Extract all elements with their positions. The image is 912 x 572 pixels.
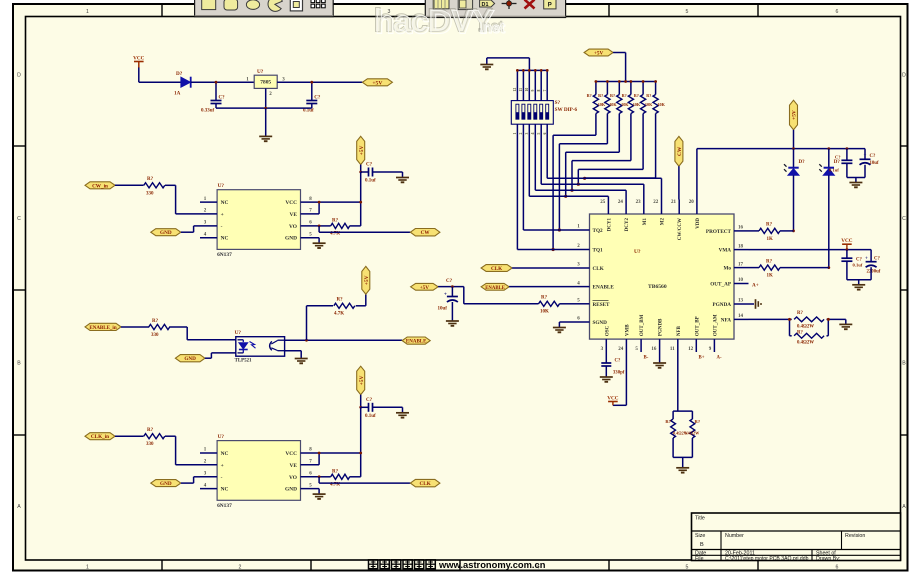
svg-text:CLK: CLK — [491, 266, 502, 272]
svg-text:VMB: VMB — [625, 324, 630, 336]
svg-text:1K: 1K — [767, 274, 774, 279]
svg-text:M1: M1 — [643, 218, 648, 226]
svg-text:NFA: NFA — [721, 317, 732, 323]
svg-text:9: 9 — [531, 90, 535, 92]
svg-text:6: 6 — [543, 133, 547, 135]
svg-text:0.1uf: 0.1uf — [303, 109, 314, 114]
svg-text:10K: 10K — [540, 310, 549, 315]
svg-text:R?: R? — [337, 298, 344, 303]
svg-text:7: 7 — [543, 90, 547, 92]
svg-text:hacDVY: hacDVY — [374, 3, 494, 40]
svg-text:File: File — [695, 556, 704, 562]
svg-text:1: 1 — [86, 565, 89, 571]
svg-text:1K: 1K — [767, 237, 774, 242]
svg-text:D?: D? — [799, 160, 806, 165]
svg-text:8: 8 — [537, 90, 541, 92]
svg-text:C?: C? — [856, 258, 862, 263]
svg-text:0.4Ω2W: 0.4Ω2W — [797, 324, 814, 329]
svg-text:Title: Title — [695, 516, 705, 522]
svg-text:OSC: OSC — [605, 325, 610, 336]
svg-text:GND: GND — [285, 487, 297, 493]
svg-text:OUT_AM: OUT_AM — [713, 314, 718, 336]
svg-text:0.4Ω2W: 0.4Ω2W — [797, 341, 814, 346]
svg-text:R?: R? — [766, 259, 773, 264]
svg-text:VO: VO — [289, 475, 297, 481]
svg-text:OUT_AP: OUT_AP — [710, 282, 732, 288]
svg-text:Size: Size — [695, 533, 705, 539]
svg-text:0.33uf: 0.33uf — [201, 109, 215, 114]
svg-text:C?: C? — [615, 359, 621, 364]
svg-text:R?: R? — [598, 93, 603, 98]
svg-text:330: 330 — [151, 333, 159, 338]
svg-text:+: + — [864, 152, 867, 158]
svg-text:10uf: 10uf — [438, 307, 448, 312]
svg-text:R?: R? — [622, 93, 627, 98]
svg-text:ENABLE: ENABLE — [593, 285, 615, 291]
svg-text:A: A — [17, 504, 21, 510]
svg-text:ENABLE: ENABLE — [406, 340, 427, 345]
svg-text:R?: R? — [797, 330, 803, 335]
svg-text:D?: D? — [834, 160, 841, 165]
svg-text:D: D — [902, 73, 906, 79]
svg-text:5: 5 — [686, 565, 689, 571]
svg-text:+5V: +5V — [594, 51, 604, 57]
svg-text:OUT_BM: OUT_BM — [640, 314, 645, 336]
svg-text:NC: NC — [221, 200, 229, 206]
svg-text:DCY2: DCY2 — [625, 218, 630, 232]
svg-text:VCC: VCC — [285, 451, 297, 457]
svg-text:VCC: VCC — [607, 395, 618, 401]
svg-text:RESET: RESET — [593, 302, 611, 308]
svg-text:U?: U? — [218, 434, 225, 440]
svg-text:www.astronomy.com.cn: www.astronomy.com.cn — [438, 560, 546, 570]
svg-text:R?: R? — [587, 93, 592, 98]
svg-text:VE: VE — [290, 212, 298, 218]
svg-text:R?: R? — [147, 428, 154, 433]
svg-text:24: 24 — [618, 200, 624, 205]
svg-text:PGNDA: PGNDA — [713, 302, 732, 308]
svg-text:+5V: +5V — [372, 80, 382, 86]
svg-text:R?: R? — [152, 319, 159, 324]
svg-text:NFB: NFB — [677, 325, 682, 336]
svg-text:4.7K: 4.7K — [334, 312, 344, 317]
svg-text:3: 3 — [525, 133, 529, 135]
svg-text:D?: D? — [176, 71, 183, 77]
svg-text:6: 6 — [836, 565, 839, 571]
svg-text:R?: R? — [541, 296, 548, 301]
svg-text:+5V: +5V — [792, 110, 798, 120]
svg-text:0.1uf: 0.1uf — [829, 168, 839, 173]
svg-text:12: 12 — [513, 88, 517, 92]
svg-text:B: B — [902, 361, 906, 367]
svg-text:330pf: 330pf — [613, 371, 625, 376]
svg-text:C:\2011\step motor PCB 3AQ.prj: C:\2011\step motor PCB 3AQ.prj.ddb — [725, 556, 809, 562]
svg-text:+5V: +5V — [364, 275, 370, 285]
svg-text:B+: B+ — [699, 356, 705, 361]
svg-text:CW/CCW: CW/CCW — [678, 218, 683, 240]
svg-text:C?: C? — [446, 279, 453, 284]
svg-text:2: 2 — [519, 133, 523, 135]
svg-text:.net: .net — [479, 20, 505, 36]
svg-text:GND: GND — [160, 481, 172, 487]
svg-text:1: 1 — [86, 9, 89, 15]
svg-text:24: 24 — [618, 347, 624, 352]
svg-text:5: 5 — [686, 9, 689, 15]
svg-text:R?: R? — [766, 223, 773, 228]
svg-text:TB6560: TB6560 — [648, 284, 667, 290]
svg-text:NC: NC — [221, 451, 229, 457]
svg-text:5: 5 — [537, 133, 541, 135]
svg-text:Mo: Mo — [724, 266, 732, 272]
svg-text:R?: R? — [646, 93, 651, 98]
svg-text:VMA: VMA — [719, 248, 732, 254]
svg-text:B-: B- — [644, 356, 649, 361]
svg-text:NC: NC — [221, 236, 229, 242]
svg-text:B: B — [700, 542, 704, 548]
svg-text:0.4Ω2W: 0.4Ω2W — [685, 431, 701, 436]
svg-text:7805: 7805 — [260, 80, 271, 86]
svg-text:VDD: VDD — [696, 218, 701, 229]
svg-text:A+: A+ — [752, 282, 759, 288]
svg-text:10: 10 — [525, 88, 529, 92]
svg-text:U?: U? — [634, 249, 641, 255]
svg-text:330: 330 — [146, 191, 154, 196]
svg-text:+: + — [221, 463, 224, 469]
svg-text:C?: C? — [219, 95, 226, 100]
svg-text:18: 18 — [738, 244, 744, 249]
svg-text:VCC: VCC — [841, 238, 852, 244]
svg-text:CW_in: CW_in — [92, 183, 108, 189]
svg-text:10uf: 10uf — [870, 161, 879, 166]
svg-text:25: 25 — [600, 200, 606, 205]
svg-text:20: 20 — [689, 200, 695, 205]
svg-text:PGNDB: PGNDB — [659, 318, 664, 336]
svg-text:CLK: CLK — [593, 266, 604, 272]
svg-text:6: 6 — [836, 9, 839, 15]
svg-text:CLK_in: CLK_in — [91, 434, 109, 440]
svg-text:2: 2 — [239, 565, 242, 571]
svg-text:11: 11 — [519, 88, 523, 92]
svg-text:R?: R? — [665, 419, 671, 424]
svg-text:4: 4 — [531, 133, 535, 135]
svg-text:11: 11 — [670, 347, 675, 352]
svg-text:21: 21 — [671, 200, 677, 205]
svg-text:P: P — [548, 2, 552, 8]
svg-text:GND: GND — [160, 230, 172, 236]
svg-text:C?: C? — [835, 155, 841, 160]
svg-text:C?: C? — [870, 154, 876, 159]
svg-text:CW: CW — [421, 230, 431, 236]
svg-text:NC: NC — [221, 487, 229, 493]
svg-text:TQ1: TQ1 — [593, 248, 603, 254]
svg-text:C: C — [902, 216, 906, 222]
svg-text:+5V: +5V — [359, 146, 365, 156]
svg-text:+: + — [444, 292, 447, 298]
svg-text:PROTECT: PROTECT — [706, 229, 732, 235]
svg-text:330: 330 — [146, 442, 154, 447]
svg-text:R?: R? — [634, 93, 639, 98]
svg-text:1A: 1A — [174, 90, 181, 96]
svg-text:D: D — [17, 73, 21, 79]
svg-text:23: 23 — [636, 200, 642, 205]
svg-text:R?: R? — [695, 419, 701, 424]
svg-text:6N137: 6N137 — [217, 503, 232, 509]
svg-text:R?: R? — [332, 470, 339, 475]
svg-text:B: B — [17, 361, 21, 367]
svg-text:10K: 10K — [645, 102, 653, 107]
svg-text:12: 12 — [688, 347, 694, 352]
svg-text:16: 16 — [651, 347, 657, 352]
svg-text:16: 16 — [738, 226, 744, 231]
svg-text:A-: A- — [717, 356, 722, 361]
svg-text:GND: GND — [184, 356, 196, 362]
svg-text:R?: R? — [332, 219, 339, 224]
svg-text:Revision: Revision — [845, 533, 865, 539]
svg-text:Number: Number — [725, 533, 744, 539]
svg-text:-: - — [221, 475, 223, 481]
svg-text:C?: C? — [366, 163, 373, 168]
svg-text:R?: R? — [147, 177, 154, 182]
svg-text:ENABLE_in: ENABLE_in — [89, 326, 116, 331]
svg-text:CLK: CLK — [420, 481, 431, 487]
svg-text:OUT_BP: OUT_BP — [695, 316, 700, 336]
svg-text:U?: U? — [235, 330, 242, 336]
svg-text:S?: S? — [555, 100, 561, 106]
svg-text:10K: 10K — [657, 102, 665, 107]
svg-text:14: 14 — [738, 314, 744, 319]
svg-text:C?: C? — [314, 95, 321, 100]
svg-text:ENABLE: ENABLE — [485, 286, 505, 291]
svg-text:SW DIP-6: SW DIP-6 — [555, 107, 578, 113]
svg-text:10K: 10K — [633, 102, 641, 107]
svg-text:M2: M2 — [661, 218, 666, 226]
svg-text:U?: U? — [218, 183, 225, 189]
svg-text:22: 22 — [653, 200, 659, 205]
svg-text:+: + — [221, 212, 224, 218]
svg-text:CW: CW — [677, 146, 683, 156]
svg-text:Drawn By:: Drawn By: — [816, 556, 840, 562]
svg-text:R?: R? — [610, 93, 615, 98]
svg-text:C: C — [17, 216, 21, 222]
svg-text:A: A — [902, 504, 906, 510]
svg-text:VE: VE — [290, 463, 298, 469]
svg-text:TLP521: TLP521 — [235, 359, 252, 364]
svg-text:+: + — [865, 256, 868, 262]
svg-text:13: 13 — [738, 299, 744, 304]
svg-text:10: 10 — [738, 278, 744, 283]
svg-text:6N137: 6N137 — [217, 252, 232, 258]
svg-text:1: 1 — [513, 133, 517, 135]
svg-text:C?: C? — [874, 257, 880, 262]
svg-text:-: - — [221, 224, 223, 230]
svg-text:SGND: SGND — [593, 320, 608, 326]
svg-text:0.1uf: 0.1uf — [365, 179, 376, 184]
svg-text:17: 17 — [738, 262, 744, 267]
svg-text:C?: C? — [366, 398, 373, 403]
svg-text:0.1uf: 0.1uf — [365, 414, 376, 419]
svg-text:2200uf: 2200uf — [867, 269, 881, 274]
svg-text:VCC: VCC — [133, 55, 144, 61]
svg-text:0.1uf: 0.1uf — [853, 263, 863, 268]
svg-text:DCY1: DCY1 — [607, 218, 612, 232]
svg-text:VCC: VCC — [285, 200, 297, 206]
svg-text:+5V: +5V — [359, 376, 365, 386]
svg-text:GND: GND — [285, 236, 297, 242]
svg-text:+5V: +5V — [420, 285, 430, 291]
svg-text:VO: VO — [289, 224, 297, 230]
svg-text:U?: U? — [257, 69, 264, 75]
svg-text:R?: R? — [797, 311, 803, 316]
svg-text:TQ2: TQ2 — [593, 228, 603, 234]
